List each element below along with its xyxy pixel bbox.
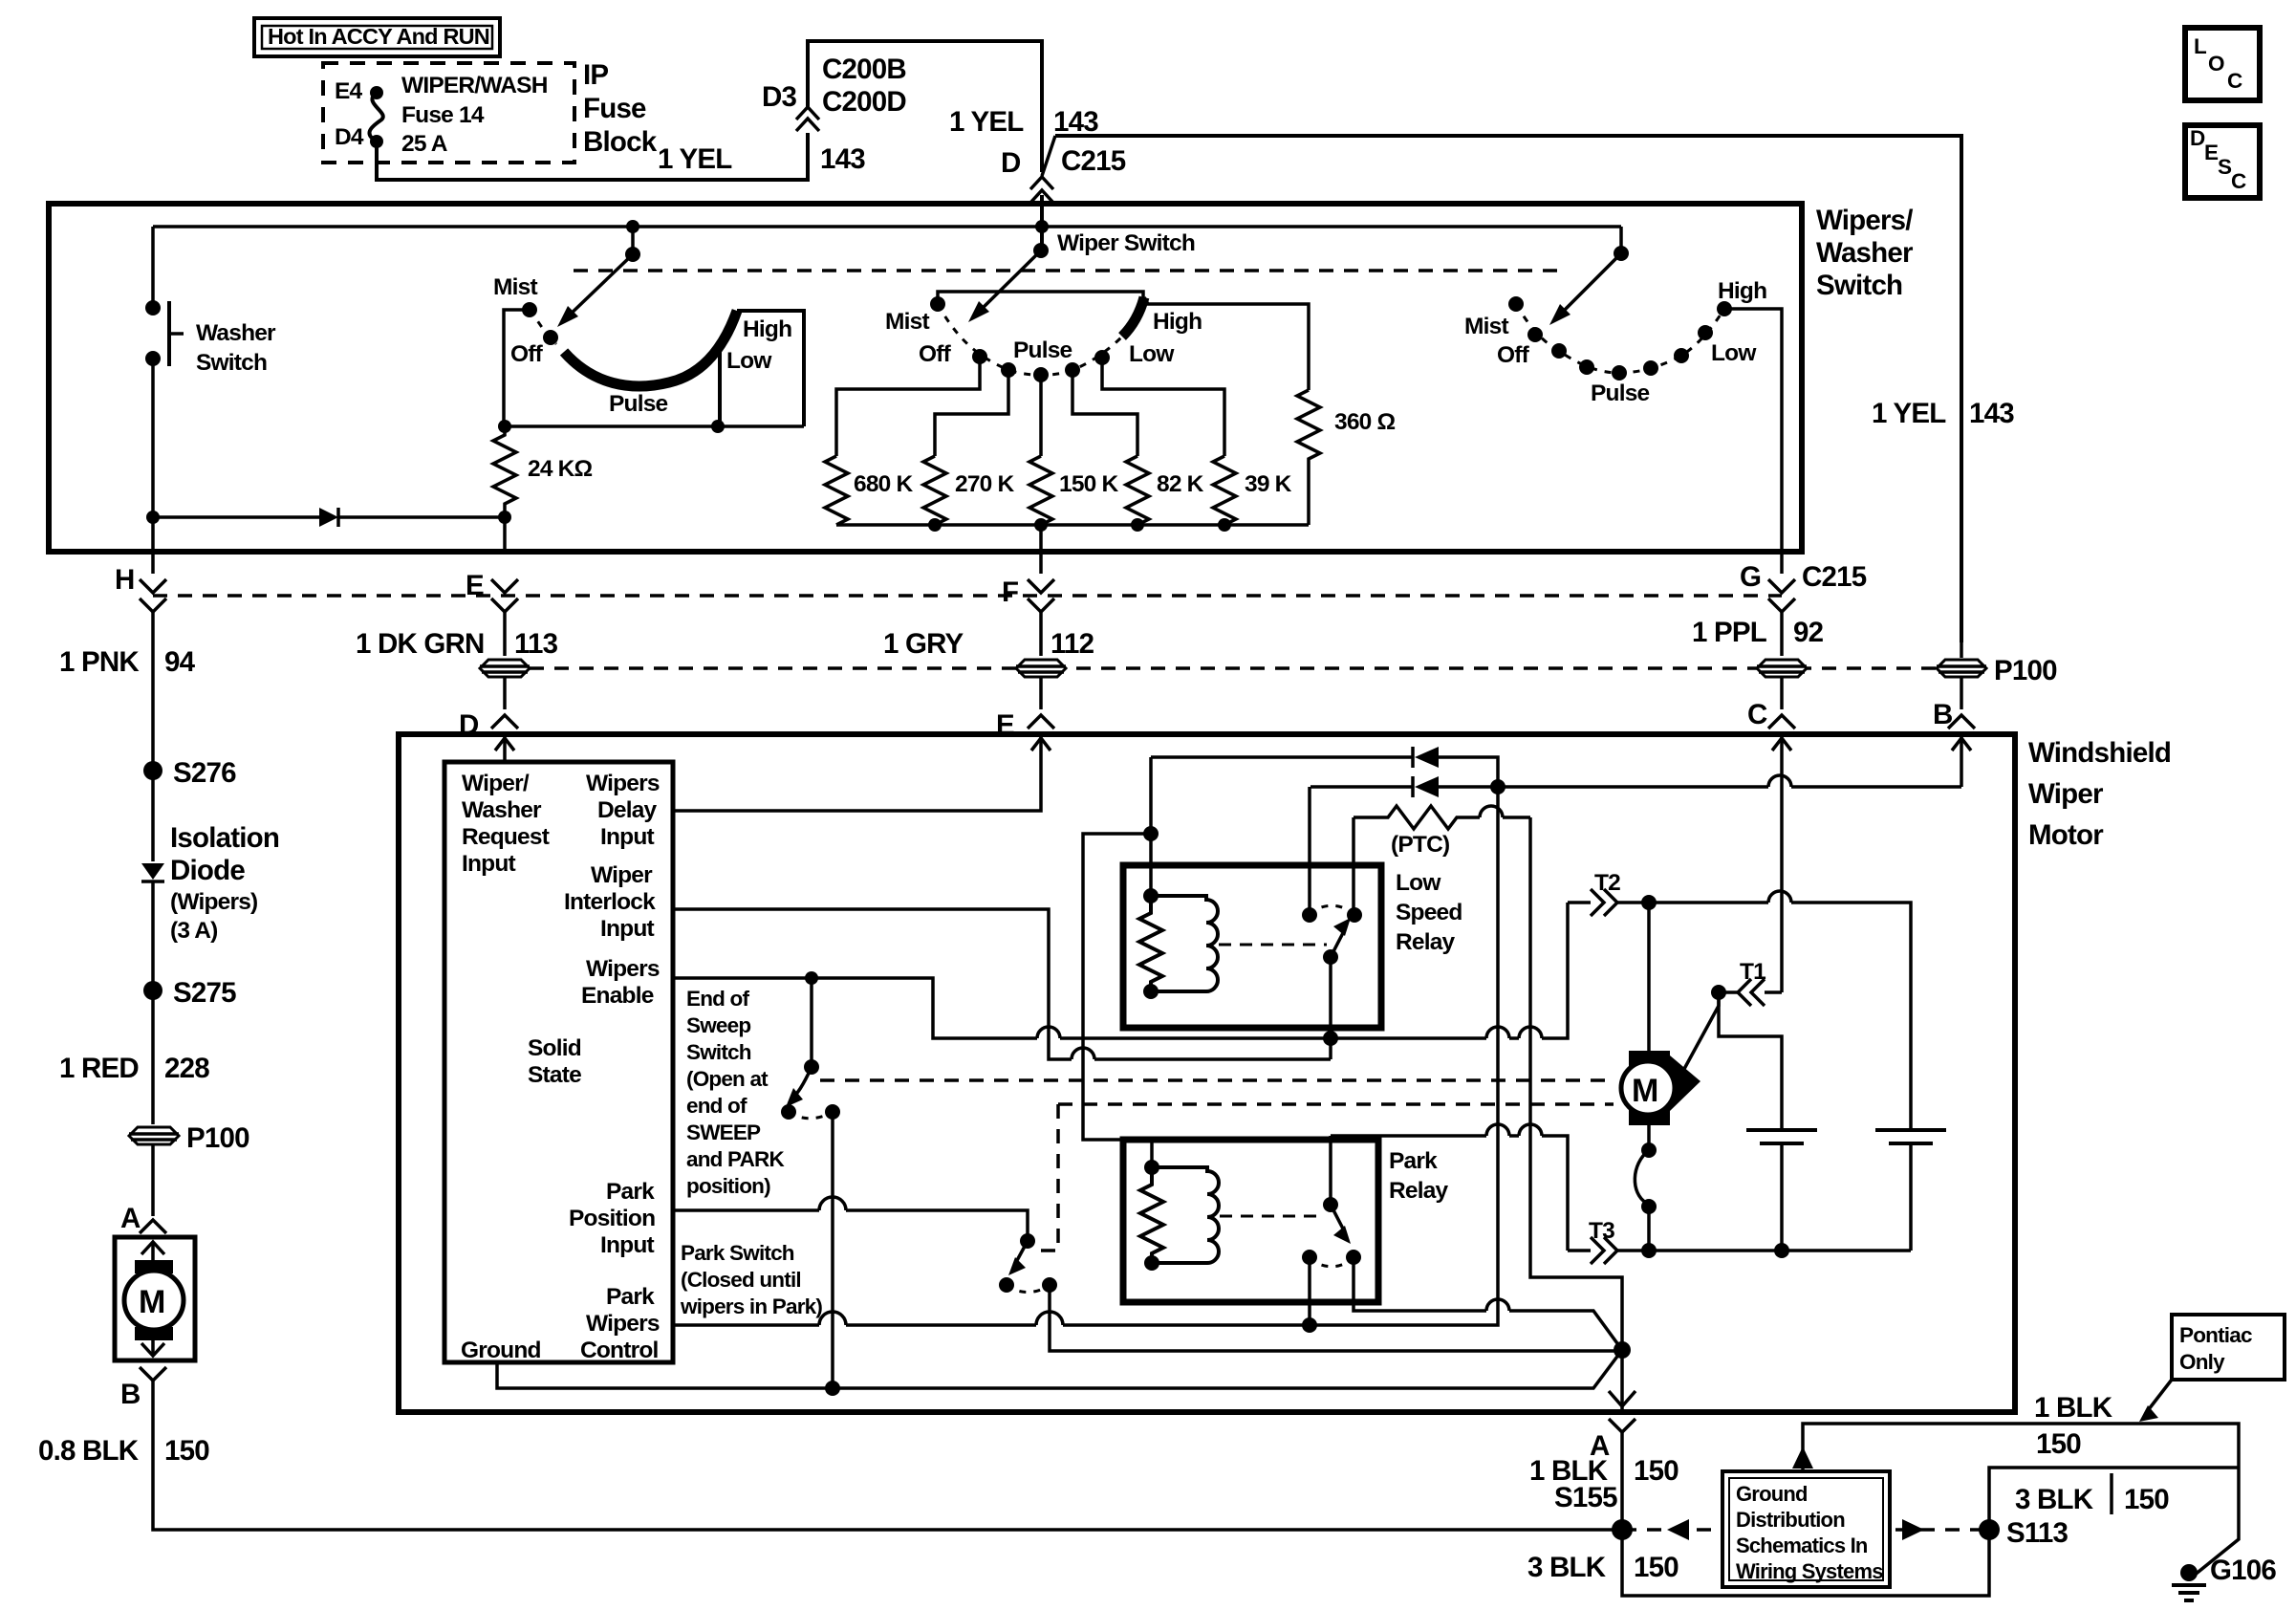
bank2 common arrow: [968, 227, 1049, 322]
svg-text:D4: D4: [335, 124, 364, 150]
pass-through grommet (1 DK GRN): [480, 660, 530, 677]
svg-text:Windshield: Windshield: [2028, 737, 2171, 769]
bank1 contact arc dashed: [530, 310, 556, 344]
bank2 Off contact: [919, 341, 987, 367]
svg-text:39 K: 39 K: [1245, 471, 1292, 497]
bank3 common arrow: [1549, 227, 1629, 325]
wire: G to motor box C pin: [1747, 677, 1795, 730]
end of sweep switch: [781, 978, 840, 1120]
svg-text:S275: S275: [173, 977, 236, 1009]
svg-text:E: E: [466, 570, 484, 601]
resistor 680K: [825, 456, 913, 525]
svg-text:Wiper: Wiper: [591, 862, 653, 888]
svg-text:(3 A): (3 A): [170, 918, 218, 944]
wire label: 1 BLK 150 (Pontiac): [2034, 1392, 2113, 1460]
svg-text:P100: P100: [1994, 655, 2057, 686]
svg-text:G106: G106: [2210, 1555, 2276, 1586]
terminal T1: [1711, 959, 1782, 1006]
svg-text:1 GRY: 1 GRY: [883, 628, 964, 660]
svg-text:C: C: [2231, 169, 2246, 193]
svg-text:92: 92: [1793, 617, 1824, 648]
svg-text:150: 150: [2124, 1484, 2169, 1515]
label D / C215: [1001, 145, 1126, 179]
washer pump outlet arrow: [141, 1329, 164, 1356]
svg-text:Switch: Switch: [196, 350, 267, 376]
svg-text:Enable: Enable: [581, 983, 654, 1009]
splice S275: [143, 977, 236, 1009]
module label: Park Position Input: [569, 1179, 655, 1258]
svg-text:S276: S276: [173, 757, 236, 789]
wire: module ground to A junction: [497, 1350, 1622, 1388]
motor armature M: [1621, 1051, 1700, 1125]
diode pair feed wire (upper): [1151, 747, 1498, 787]
svg-text:Delay: Delay: [597, 797, 658, 823]
wire: washer switch to H: [151, 517, 155, 574]
wire: S113 up to 1 BLK 150 wire: [1989, 1468, 2239, 1530]
svg-text:and PARK: and PARK: [686, 1147, 785, 1171]
wire: fuse D4 to C200 connector (1 YEL 143): [377, 41, 1042, 180]
svg-text:24 KΩ: 24 KΩ: [528, 456, 593, 482]
svg-text:Wiper/: Wiper/: [462, 771, 530, 796]
svg-text:C200D: C200D: [822, 86, 906, 118]
wire: Wiper Interlock Input: [673, 909, 1331, 1059]
resistor 24 Kohm: [493, 426, 593, 517]
wire: coil feed to park relay coil: [1083, 834, 1152, 1167]
svg-text:C: C: [2227, 69, 2242, 93]
capacitor (right): [1875, 1130, 1946, 1251]
module label: Park Wipers Control: [580, 1284, 660, 1363]
terminal T2: [1568, 870, 1649, 916]
dashed link: ground distribution box to S113: [1895, 1519, 1989, 1540]
pin E entry arrow and wire to Wipers Delay Input: [673, 737, 1051, 811]
resistor 150K: [1029, 456, 1118, 525]
wire: C215-D down into wiper switch: [1040, 195, 1044, 252]
pass-through grommet P100 (1 YEL): [1937, 655, 2057, 686]
pin A exit arrow: [1609, 1350, 1635, 1409]
wire: A to S155: [1620, 1432, 1624, 1530]
svg-text:IP: IP: [583, 59, 608, 91]
label box: Hot In ACCY And RUN: [254, 18, 500, 56]
bank3 pulse contacts: [1551, 343, 1689, 406]
label: 1 YEL 143 (right side): [1872, 398, 2014, 429]
svg-text:Low: Low: [1129, 341, 1175, 367]
wire: park switch contact to A junction: [1050, 1285, 1620, 1351]
wire label: 1 BLK 150 (at A): [1529, 1455, 1679, 1487]
svg-text:F: F: [1002, 577, 1018, 608]
svg-text:High: High: [1718, 278, 1766, 304]
svg-text:Mist: Mist: [885, 309, 929, 335]
wire: PTC branch down to A junction: [1530, 817, 1622, 1350]
bank2 resistor bottom bus: [836, 518, 1309, 532]
svg-text:SWEEP: SWEEP: [686, 1120, 761, 1144]
wire: relay common bus to T2: [1323, 903, 1568, 1059]
bank2 contact arc dashed: [938, 304, 1122, 375]
pass-through grommet (1 PPL): [1757, 660, 1807, 677]
bank3 contact arc dashed: [1516, 304, 1724, 373]
svg-text:Low: Low: [726, 348, 772, 374]
bank1 pulse thick arc: [564, 311, 737, 386]
svg-text:Switch: Switch: [1816, 270, 1902, 301]
wire: switch feed bus: [153, 225, 1621, 228]
junction node on feed bus at washer branch: [1035, 220, 1049, 233]
bank2 tap wire: pulse mid to 150K and F: [1039, 375, 1043, 456]
svg-text:C: C: [1747, 699, 1767, 730]
bank1 bottom bus: [498, 420, 804, 433]
resistor 360 ohm: [1297, 390, 1395, 525]
dashed link: S155 to ground distribution box: [1622, 1519, 1718, 1540]
wire label: 1 PPL 92: [1692, 612, 1824, 656]
svg-text:1 RED: 1 RED: [59, 1053, 139, 1084]
windshield wiper motor box: [399, 734, 2015, 1412]
svg-text:A: A: [120, 1203, 141, 1234]
pin B entry arrow and wire to diode bus: [1952, 737, 1971, 787]
svg-text:Park: Park: [606, 1284, 655, 1310]
module label: Wipers Delay Input: [586, 771, 660, 850]
svg-text:High: High: [1153, 309, 1202, 335]
svg-text:Request: Request: [462, 824, 550, 850]
svg-text:Fuse: Fuse: [583, 93, 646, 124]
mechanical linkage dashed (park switch to motor cam): [1037, 1104, 1614, 1251]
pin D entry arrow into module: [495, 737, 514, 762]
svg-text:143: 143: [820, 143, 865, 175]
label: Park Switch (Closed until wipers in Park): [680, 1241, 822, 1318]
svg-text:150: 150: [1634, 1455, 1679, 1487]
wire: S155 loop to S113: [1622, 1530, 1989, 1596]
svg-text:end of: end of: [686, 1094, 747, 1118]
bank1 mist to left rail: [504, 310, 530, 426]
wire: motor top brush to T2: [1647, 903, 1651, 1052]
svg-text:Motor: Motor: [2028, 819, 2104, 851]
svg-text:113: 113: [514, 628, 558, 660]
bank3 Low contact: [1698, 325, 1757, 366]
svg-text:Pulse: Pulse: [609, 391, 668, 417]
wire: E to motor box D pin: [459, 677, 518, 741]
module label: Wiper Interlock Input: [564, 862, 656, 942]
svg-text:Relay: Relay: [1389, 1178, 1449, 1204]
svg-text:Washer: Washer: [1816, 237, 1914, 269]
svg-text:S113: S113: [2006, 1517, 2068, 1549]
svg-text:Wiper Switch: Wiper Switch: [1057, 230, 1195, 256]
wire label: 3 BLK 150 (below S155): [1527, 1552, 1679, 1583]
svg-text:G: G: [1740, 561, 1761, 593]
svg-text:228: 228: [164, 1053, 209, 1084]
svg-text:Interlock: Interlock: [564, 889, 656, 915]
bank2 high wire to 360ohm: [1144, 297, 1309, 390]
svg-text:E: E: [2204, 141, 2219, 164]
LOC box: [2185, 28, 2260, 100]
svg-text:150: 150: [2036, 1428, 2081, 1460]
svg-text:M: M: [139, 1284, 165, 1320]
svg-text:270 K: 270 K: [955, 471, 1014, 497]
svg-text:143: 143: [1053, 106, 1098, 138]
bank3 Off contact: [1497, 327, 1543, 368]
connector P100 (washer pump): [129, 1122, 249, 1154]
bank2 tap wire: pulse1 to 270K: [935, 370, 1008, 456]
svg-text:H: H: [115, 564, 135, 596]
svg-text:1 YEL: 1 YEL: [658, 143, 732, 175]
splice S276: [143, 757, 236, 789]
connector D3 chevron into C200B/C200D: [796, 107, 819, 131]
PTC resistor: [1354, 806, 1530, 858]
wire: relay common down to park relay: [1329, 1136, 1332, 1205]
svg-text:Only: Only: [2179, 1350, 2225, 1374]
isolation diode (wipers): [141, 771, 279, 985]
low speed relay box: [1123, 865, 1381, 1028]
wire label: 1 YEL 143 (below C200): [949, 106, 1098, 138]
svg-text:1 PNK: 1 PNK: [59, 646, 140, 678]
connector E arrow: [466, 570, 518, 612]
wire label: 3 BLK 150 (right): [2015, 1473, 2169, 1515]
washer pump pin A: [120, 1144, 166, 1234]
svg-text:S155: S155: [1554, 1482, 1617, 1513]
park relay contacts and arm: [1220, 1197, 1361, 1267]
bank3 Mist contact: [1464, 296, 1524, 339]
connector G arrow: [1740, 561, 1867, 612]
bank2 labels High Low: [1129, 309, 1202, 367]
label: IP Fuse Block: [583, 59, 658, 158]
wire: end of sweep contact down to ground bus: [825, 1112, 840, 1396]
DESC box: [2185, 125, 2260, 198]
svg-text:End of: End of: [686, 987, 749, 1011]
svg-text:T2: T2: [1594, 870, 1620, 896]
wire: washer pump ground to S155: [153, 1423, 1622, 1530]
wire label: 1 RED 228: [59, 990, 209, 1124]
module label: Solid State: [528, 1035, 581, 1088]
wiper switch bank 1 common arrow: [557, 220, 640, 327]
svg-text:E4: E4: [335, 78, 363, 104]
label: Windshield Wiper Motor: [2028, 737, 2171, 851]
svg-text:Speed: Speed: [1396, 900, 1462, 925]
bank2 pulse contacts: [1001, 337, 1110, 382]
wire: 1 YEL to motor box B pin: [1933, 642, 1975, 730]
wire: bank2 mid to F: [1039, 525, 1043, 574]
wire: T1 junction to motor brush: [1684, 992, 1719, 1069]
svg-text:Input: Input: [462, 851, 516, 877]
svg-text:Pulse: Pulse: [1013, 337, 1072, 363]
junction at pin A: [1614, 1341, 1631, 1359]
svg-text:Input: Input: [600, 1232, 655, 1258]
svg-text:C215: C215: [1061, 145, 1126, 177]
ground distribution schematics box: [1722, 1471, 1890, 1587]
low speed relay contacts and arm: [1219, 787, 1362, 965]
svg-text:Fuse 14: Fuse 14: [401, 102, 485, 128]
svg-text:Diode: Diode: [170, 855, 245, 886]
svg-text:Pulse: Pulse: [1591, 381, 1650, 406]
svg-text:B: B: [1933, 699, 1953, 730]
svg-text:1 YEL: 1 YEL: [1872, 398, 1946, 429]
svg-text:Ground: Ground: [461, 1338, 541, 1363]
svg-text:Switch: Switch: [686, 1040, 751, 1064]
low speed relay coil feed: [1143, 757, 1159, 896]
module label: Wipers Enable: [581, 956, 660, 1009]
svg-text:3 BLK: 3 BLK: [1527, 1552, 1607, 1583]
wire: 1 YEL 143 from C215-D to right side down to P100: [1055, 136, 1961, 642]
svg-text:L: L: [2194, 34, 2207, 58]
low speed relay coil and resistor: [1139, 888, 1218, 999]
wire: Park Position Input to park switch: [673, 1197, 1028, 1237]
svg-text:112: 112: [1051, 628, 1094, 660]
Pontiac Only box: [2139, 1315, 2285, 1422]
resistor 82K: [1126, 456, 1204, 525]
svg-text:25 A: 25 A: [401, 131, 448, 157]
windshield washer pump box: [115, 1237, 195, 1360]
wire: T2 to right capacitor branch: [1641, 891, 1911, 1128]
label: End of Sweep Switch: [686, 987, 785, 1198]
svg-text:(Open at: (Open at: [686, 1067, 769, 1091]
svg-text:0.8 BLK: 0.8 BLK: [38, 1435, 140, 1467]
park relay box: [1123, 1140, 1378, 1302]
washer pump motor M: [124, 1260, 184, 1340]
svg-text:Distribution: Distribution: [1736, 1508, 1845, 1532]
svg-text:T1: T1: [1740, 959, 1765, 985]
svg-text:Off: Off: [1497, 342, 1530, 368]
svg-text:O: O: [2208, 52, 2224, 76]
park switch: [999, 1233, 1057, 1293]
bank2 tap wire: Off to 680K: [836, 357, 980, 456]
svg-text:Control: Control: [580, 1338, 659, 1363]
svg-text:Washer: Washer: [196, 320, 276, 346]
svg-text:Off: Off: [919, 341, 952, 367]
bank2 tap wire: pulse3 to 82K: [1072, 370, 1137, 456]
svg-text:1 PPL: 1 PPL: [1692, 617, 1767, 648]
bank2 tap wire: low to 39K: [1102, 358, 1224, 456]
svg-text:Low: Low: [1711, 340, 1757, 366]
label: Park Relay: [1389, 1148, 1449, 1204]
svg-text:Ground: Ground: [1736, 1482, 1808, 1506]
connector F arrow: [1002, 577, 1054, 612]
svg-text:P100: P100: [186, 1122, 249, 1154]
bank1 high/low window: [720, 311, 804, 426]
svg-text:(PTC): (PTC): [1391, 832, 1449, 858]
svg-text:3 BLK: 3 BLK: [2015, 1484, 2094, 1515]
label C200B C200D: [822, 54, 906, 118]
pin C entry arrow: [1772, 737, 1791, 992]
connector H arrow: [115, 564, 166, 612]
svg-text:D: D: [1001, 147, 1021, 179]
svg-text:150: 150: [1634, 1552, 1679, 1583]
wire label: 1 DK GRN 113: [356, 612, 558, 660]
svg-text:Mist: Mist: [1464, 314, 1508, 339]
motor cam contact: [1635, 1125, 1657, 1251]
svg-text:D3: D3: [762, 81, 797, 113]
connector C215 dashed line: [153, 594, 1782, 598]
connector C215 pin D chevron: [1030, 136, 1055, 203]
svg-text:82 K: 82 K: [1157, 471, 1204, 497]
svg-text:Block: Block: [583, 126, 658, 158]
splice S113: [1979, 1517, 2068, 1549]
terminal T3: [1568, 1218, 1649, 1264]
svg-text:D: D: [2190, 126, 2205, 150]
wire: T3 bus with capacitor taps: [1641, 1243, 1911, 1258]
svg-text:Schematics In: Schematics In: [1736, 1534, 1868, 1557]
wire: park relay NO contact to A junction: [1354, 1257, 1622, 1350]
bank1 Mist contact: [493, 274, 537, 317]
washer switch: [145, 227, 276, 517]
svg-text:680 K: 680 K: [854, 471, 913, 497]
svg-text:Off: Off: [510, 341, 544, 367]
svg-text:Pontiac: Pontiac: [2179, 1323, 2252, 1347]
svg-text:position): position): [686, 1174, 770, 1198]
svg-text:C215: C215: [1802, 561, 1867, 593]
wire label: 1 YEL 143 (at fuse): [658, 143, 865, 175]
svg-text:150: 150: [164, 1435, 209, 1467]
resistor 39K: [1213, 456, 1292, 525]
bank2 high thick arc: [1122, 297, 1144, 337]
ground G106: [2172, 1555, 2276, 1600]
resistor 270K: [923, 456, 1014, 525]
svg-text:Wipers: Wipers: [586, 771, 660, 796]
svg-text:Washer: Washer: [462, 797, 542, 823]
pass-through grommet (1 GRY): [1016, 660, 1066, 677]
svg-text:1 DK GRN: 1 DK GRN: [356, 628, 485, 660]
svg-text:C200B: C200B: [822, 54, 906, 85]
svg-text:Park: Park: [606, 1179, 655, 1205]
splice S155: [1554, 1482, 1633, 1540]
wire: 1 BLK 150 from ground distribution to G106: [1792, 1424, 2239, 1576]
wire label: 0.8 BLK 150: [38, 1435, 209, 1467]
svg-text:360 Ω: 360 Ω: [1334, 409, 1395, 435]
IP fuse block dashed box: [323, 63, 574, 163]
svg-text:State: State: [528, 1062, 581, 1088]
svg-text:M: M: [1632, 1073, 1658, 1109]
wire label: 1 PNK 94: [59, 612, 196, 765]
svg-text:Mist: Mist: [493, 274, 537, 300]
svg-text:Wipers: Wipers: [586, 1311, 660, 1337]
wipers/washer switch outer box: [49, 204, 1802, 552]
wire: T3 bus to A junction bus: [1331, 1124, 1568, 1251]
svg-text:Hot In ACCY And RUN: Hot In ACCY And RUN: [268, 24, 489, 49]
diode (washer to wiper circuit): [146, 508, 511, 552]
svg-text:WIPER/WASH: WIPER/WASH: [401, 73, 548, 98]
bank2 Mist contact: [885, 296, 945, 335]
svg-text:High: High: [743, 316, 791, 342]
svg-text:S: S: [2218, 155, 2232, 179]
solid state module box: [444, 762, 673, 1362]
svg-text:(Wipers): (Wipers): [170, 889, 257, 915]
mechanical linkage dashed (end of sweep to motor cam): [820, 1078, 1614, 1082]
diode pair feed wire (lower, to B): [1310, 775, 1961, 797]
svg-text:(Closed until: (Closed until: [681, 1268, 801, 1292]
svg-text:143: 143: [1969, 398, 2014, 429]
svg-text:Position: Position: [569, 1206, 655, 1231]
wire: Wipers Enable to relay common bus: [673, 971, 1331, 1038]
svg-text:94: 94: [164, 646, 196, 678]
pin A chevron below motor box: [1590, 1419, 1635, 1462]
bank1 Off contact: [510, 330, 558, 367]
svg-text:Input: Input: [600, 824, 655, 850]
bank2 frame: mist to high: [938, 292, 1143, 304]
svg-text:B: B: [120, 1379, 141, 1410]
svg-text:wipers in Park): wipers in Park): [680, 1295, 822, 1318]
bank3 high wire to G: [1724, 309, 1782, 574]
svg-text:Wipers/: Wipers/: [1816, 205, 1913, 236]
wire: F to motor box E pin: [996, 677, 1054, 741]
connector P100 dashed line: [480, 666, 1989, 670]
svg-text:Park: Park: [1389, 1148, 1438, 1174]
capacitor (left): [1746, 1130, 1817, 1251]
svg-text:Low: Low: [1396, 870, 1441, 896]
fuse WIPER/WASH Fuse 14 25A element: [369, 86, 383, 148]
svg-text:150 K: 150 K: [1059, 471, 1118, 497]
svg-text:Wipers: Wipers: [586, 956, 660, 982]
label: Low Speed Relay: [1396, 870, 1462, 955]
wire: park relay NC contact to control bus: [1302, 1257, 1317, 1333]
svg-text:Relay: Relay: [1396, 929, 1456, 955]
module label: Wiper/Washer Request Input: [462, 771, 550, 877]
svg-text:Park Switch: Park Switch: [681, 1241, 794, 1265]
svg-text:Solid: Solid: [528, 1035, 581, 1061]
svg-text:T3: T3: [1589, 1218, 1614, 1244]
